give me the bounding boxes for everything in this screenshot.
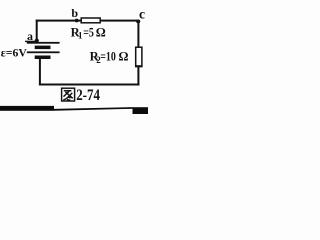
battery cell2 short thick plate — [35, 56, 51, 60]
background — [0, 0, 148, 114]
caption 图 glyph — [62, 88, 75, 101]
svg-text:2-74: 2-74 — [76, 87, 100, 104]
wire: top horizontal from left corner through b to c — [36, 20, 140, 22]
svg-text:c: c — [139, 7, 145, 22]
wire: battery negative terminal down — [39, 59, 41, 85]
wire: right vertical from c to R2 top — [137, 20, 139, 48]
resistor R2 box bottom thick edge — [135, 65, 143, 67]
node a underline tick — [25, 41, 36, 42]
bottom rule: thin middle line — [54, 107, 133, 111]
node a junction dot — [35, 39, 39, 43]
wire: bottom horizontal — [39, 84, 140, 86]
svg-text:ε=6V: ε=6V — [1, 45, 27, 59]
wire: right vertical from R2 bottom to bottom wire — [137, 66, 139, 86]
svg-text:Ω: Ω — [119, 50, 129, 64]
svg-text:=5: =5 — [83, 25, 94, 39]
bottom rule: left thick bar — [0, 106, 54, 111]
svg-text:b: b — [71, 6, 78, 20]
battery cell2 long plate — [27, 51, 60, 53]
resistor R2 box — [136, 47, 142, 66]
resistor R1 box — [81, 18, 100, 23]
svg-text:a: a — [27, 29, 33, 43]
wire: left vertical drop to node a — [36, 20, 38, 41]
node b junction dot — [75, 19, 79, 23]
svg-text:Ω: Ω — [96, 25, 106, 39]
bottom rule: right thick block — [133, 107, 149, 114]
battery cell1 long plate — [27, 42, 60, 44]
battery cell1 short thick plate — [35, 46, 51, 50]
node c corner tick — [136, 20, 140, 23]
svg-text:=10: =10 — [100, 50, 116, 64]
